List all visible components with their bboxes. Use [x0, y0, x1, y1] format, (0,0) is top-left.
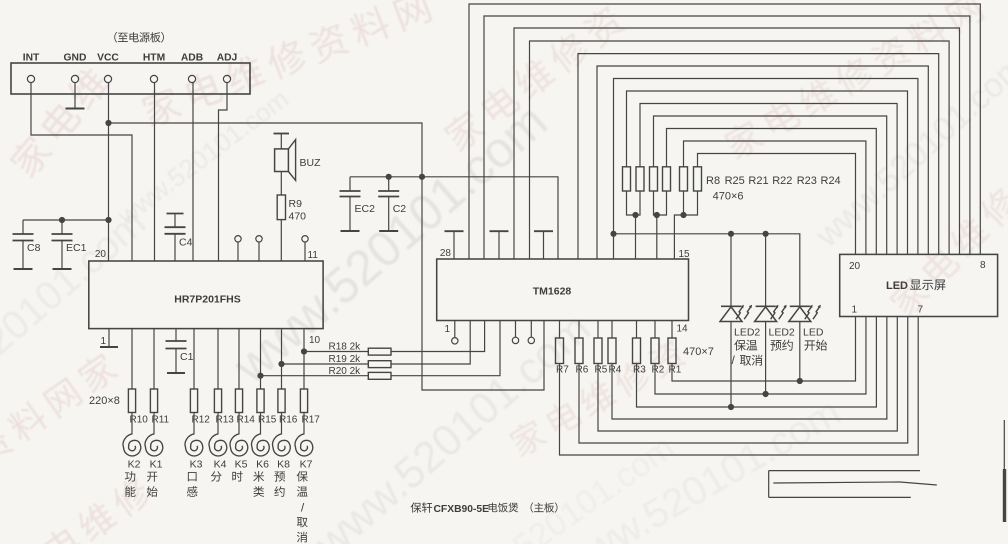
svg-text:C2: C2 [393, 203, 407, 215]
svg-text:ADB: ADB [181, 53, 203, 64]
svg-text:R21: R21 [748, 175, 768, 187]
wire pair B to U2 [656, 215, 658, 259]
svg-text:R20 2k: R20 2k [329, 366, 362, 377]
pin U2 top bar 1 [445, 230, 464, 232]
label (to power board) [114, 32, 117, 43]
wire R pair A [627, 191, 641, 215]
svg-text:VCC: VCC [97, 53, 119, 64]
wire ADJ [219, 83, 228, 261]
wire bus path 10 (R bank to LED pin) [654, 116, 887, 254]
resistor R11 [150, 389, 157, 413]
caption line [411, 502, 422, 512]
label K7 char [297, 471, 308, 482]
svg-text:7: 7 [918, 305, 924, 316]
svg-text:1: 1 [444, 324, 450, 335]
label K7 char [297, 517, 308, 527]
label K6 char [253, 486, 264, 497]
wire fragment b [773, 482, 937, 485]
node pair A [632, 212, 638, 218]
node VCC junction 2 [105, 217, 111, 223]
svg-text:K3: K3 [190, 459, 203, 471]
svg-text:CFXB90-5E: CFXB90-5E [434, 504, 490, 515]
svg-text:R6: R6 [576, 365, 589, 376]
wire LED1 drop [730, 234, 732, 306]
wire bus path 1 (U2 pin to LED pin) [469, 4, 980, 259]
svg-text:HTM: HTM [143, 53, 165, 64]
wire bus path 12 (R bank to LED pin) [684, 141, 866, 254]
led LED2 preset [756, 305, 776, 307]
resistor R2 [651, 338, 659, 364]
svg-text:C4: C4 [179, 237, 193, 249]
label K3 char [188, 472, 197, 481]
buzzer BUZ [275, 149, 289, 172]
wire U1 to R14 [238, 329, 240, 389]
resistor R9 [277, 195, 285, 220]
pin U2-5 circle [515, 321, 517, 338]
wire U1 to R12 [193, 329, 195, 389]
node VCC junction 1 [105, 120, 111, 126]
wire U1 to R16 [281, 329, 283, 389]
wire bus path 5 (U2 pin to LED pin) [578, 54, 939, 259]
wire U1 to R10 [131, 329, 133, 389]
label K8 char [274, 471, 285, 481]
svg-text:470×7: 470×7 [683, 346, 714, 358]
wire U2 to R2 [654, 321, 656, 339]
wire LED3 cathode [799, 322, 801, 382]
node LED2 anode [763, 231, 769, 237]
pin U2 top bar 3 [534, 230, 553, 232]
svg-text:20: 20 [849, 261, 861, 272]
wire R9 to U1 [280, 220, 282, 261]
wire R6 to LED pin 6 [579, 317, 908, 444]
label K5 char [232, 471, 242, 481]
key K8 [273, 434, 291, 456]
svg-text:GND: GND [64, 53, 87, 64]
power bar BUZ [274, 133, 290, 135]
led LED start [790, 305, 810, 307]
wire LED1 cathode [730, 322, 732, 408]
wire R13 to key [217, 413, 219, 435]
node U2 bus junction [610, 231, 616, 237]
wire U2 to R3 [636, 321, 638, 339]
svg-text:R4: R4 [609, 365, 622, 376]
svg-text:HR7P201FHS: HR7P201FHS [174, 294, 241, 306]
svg-text:LED: LED [803, 327, 824, 339]
svg-text:C8: C8 [27, 242, 41, 254]
node LED3 cathode [797, 378, 803, 384]
wire R16 to key [281, 413, 283, 435]
pin U2-1 circle [454, 321, 456, 338]
resistor bank 4 [663, 167, 671, 191]
wire R5 to LED pin 5 [598, 317, 897, 432]
node LED1 anode [728, 231, 734, 237]
wire R4 to LED pin 4 [612, 317, 887, 420]
wire ADB [192, 83, 194, 261]
svg-text:BUZ: BUZ [300, 157, 322, 169]
wire R11 to key [153, 413, 155, 435]
node R20 junction [257, 373, 263, 379]
wire LED2 drop [765, 234, 767, 306]
resistor R18 [368, 348, 391, 355]
wire VCC [108, 83, 110, 261]
svg-text:R9: R9 [289, 198, 303, 210]
svg-text:R7: R7 [556, 365, 569, 376]
node pair B [654, 212, 660, 218]
label K2 char [125, 471, 135, 481]
svg-text:TM1628: TM1628 [533, 286, 572, 298]
ground GND [66, 108, 85, 110]
capacitor C1 [175, 329, 177, 341]
pin VCC [104, 75, 111, 82]
svg-text:15: 15 [679, 249, 691, 260]
connector J1 (to power board) [11, 63, 250, 94]
resistor R6 [575, 338, 583, 364]
wire R15 to key [260, 413, 262, 435]
svg-text:28: 28 [440, 248, 452, 259]
svg-text:20: 20 [95, 249, 107, 260]
wire GND [74, 83, 76, 109]
wire R1 to LED pin 1 [672, 317, 856, 382]
wire U2 to R4 [611, 321, 613, 339]
label K1 char [147, 472, 157, 482]
resistor R10 [128, 389, 135, 413]
key K4 [209, 434, 227, 456]
capacitor C8 [22, 220, 24, 234]
svg-text:LED2: LED2 [734, 327, 760, 339]
node R19 junction [278, 361, 284, 367]
resistor R20 [368, 372, 391, 379]
wire bus path 11 (R bank to LED pin) [667, 129, 877, 255]
resistor bank 6 [694, 167, 702, 191]
svg-text:470×6: 470×6 [713, 191, 744, 203]
wire U2 to R7 [559, 321, 561, 339]
svg-text:K5: K5 [235, 459, 248, 471]
resistor R5 [594, 338, 602, 364]
pin circle U1 top a [235, 236, 241, 242]
wire fragment c [769, 496, 911, 498]
wire U2 to R1 [671, 321, 673, 339]
resistor R1 [668, 338, 676, 364]
pin HTM [150, 75, 157, 82]
wire fragment a [769, 470, 920, 472]
svg-text:K4: K4 [214, 459, 227, 471]
svg-text:K1: K1 [150, 459, 163, 471]
svg-text:10: 10 [309, 335, 321, 346]
wire HTM [154, 83, 156, 261]
svg-text:1: 1 [100, 336, 106, 347]
ic U1 HR7P201FHS [89, 261, 323, 329]
pin INT [27, 75, 34, 82]
wire bus path 8 (R bank to LED pin) [627, 91, 908, 254]
svg-text:LED: LED [886, 280, 908, 292]
wire R2 to LED pin 2 [655, 317, 866, 395]
label K1 char [147, 486, 158, 497]
wire fragment d [768, 471, 770, 498]
svg-text:1: 1 [852, 305, 858, 316]
resistor bank 1 [623, 167, 631, 191]
wire U1 to R17 [303, 329, 305, 389]
pin GND [71, 75, 78, 82]
wire R pair B [654, 191, 667, 215]
capacitor EC1 [61, 220, 63, 234]
resistor R16 [278, 389, 285, 413]
resistor R3 [633, 338, 641, 364]
svg-text:EC1: EC1 [66, 242, 87, 254]
pin ADJ [223, 75, 230, 82]
key K6 [252, 434, 270, 456]
key K1 [145, 434, 163, 456]
pin ADB [188, 75, 195, 82]
svg-text:8: 8 [980, 260, 986, 271]
wire R17 to key [303, 413, 305, 435]
svg-text:R2: R2 [652, 365, 665, 376]
wire bus path 9 (R bank to LED pin) [640, 104, 897, 255]
svg-text:R1: R1 [669, 365, 682, 376]
wire R19 to U2 [391, 321, 470, 365]
key K5 [230, 434, 248, 456]
capacitor C2 [388, 177, 390, 191]
svg-text:R23: R23 [797, 175, 817, 187]
svg-text:R5: R5 [595, 365, 608, 376]
svg-text:R24: R24 [821, 175, 841, 187]
label K4 char [211, 471, 222, 481]
resistor R19 [368, 361, 391, 368]
ground U1 pin1 [100, 346, 118, 348]
svg-text:INT: INT [23, 53, 40, 64]
resistor R7 [556, 338, 564, 364]
svg-text:K2: K2 [128, 459, 141, 471]
edge mark [1003, 420, 1005, 470]
svg-text:K8: K8 [277, 459, 290, 471]
node LED1 cathode [728, 404, 734, 410]
key K3 [185, 434, 203, 456]
node EC1 junction [59, 217, 65, 223]
resistor R14 [235, 389, 242, 413]
svg-text:ADJ: ADJ [217, 53, 238, 64]
wire U1 to R15 [260, 329, 262, 389]
wire R20 to U2 [391, 321, 500, 376]
wire INT [31, 83, 132, 261]
resistor bank 5 [680, 167, 688, 191]
label K6 char [253, 471, 264, 482]
capacitor C4 [167, 213, 184, 215]
wire VCC rail [109, 123, 545, 390]
pin circle U1 pin11 [302, 236, 308, 242]
wire bus path 13 (R bank to LED pin) [698, 154, 856, 255]
node VCC-EC2 bus junction [419, 174, 425, 180]
wire bus path 2 (U2 pin to LED pin) [484, 16, 970, 259]
led LED2 keep-warm/cancel [721, 305, 741, 307]
wire R pair C [674, 191, 697, 259]
resistor R13 [214, 389, 221, 413]
wire U1 to R11 [153, 329, 155, 389]
wire U2 to R6 [578, 321, 580, 339]
label K7 char [297, 486, 308, 496]
svg-text:R22: R22 [772, 175, 792, 187]
svg-text:R19 2k: R19 2k [329, 354, 362, 365]
svg-text:LED2: LED2 [769, 327, 795, 339]
label K3 char [187, 486, 198, 497]
svg-text:K7: K7 [300, 459, 313, 471]
resistor R4 [608, 338, 616, 364]
wire LED2 cathode [765, 322, 767, 395]
ic U2 TM1628 [437, 259, 689, 321]
wire bus path 4 (U2 pin to LED pin) [530, 41, 950, 259]
key K7 [295, 434, 313, 456]
wire U1 pin1 ground [108, 329, 110, 347]
svg-text:C1: C1 [180, 351, 194, 363]
key K2 [123, 434, 141, 456]
resistor R17 [300, 389, 307, 413]
node R18 junction [301, 348, 307, 354]
wire bus path 3 (U2 pin to LED pin) [514, 28, 960, 259]
wire LED anode bus [614, 234, 800, 306]
resistor R12 [190, 389, 197, 413]
resistor bank 2 [636, 167, 644, 191]
pin U2 top bar 2 [490, 230, 509, 232]
svg-text:470: 470 [289, 211, 307, 223]
svg-text:R8: R8 [706, 175, 720, 187]
svg-text:11: 11 [308, 250, 319, 261]
wire U1 to R13 [217, 329, 219, 389]
svg-text:R18 2k: R18 2k [329, 342, 362, 353]
wire R18 [304, 351, 368, 353]
wire U2 to R5 [597, 321, 599, 339]
resistor R15 [257, 389, 264, 413]
wire R7 to LED pin 7 [560, 317, 919, 456]
label K8 char [274, 486, 284, 497]
svg-text:R25: R25 [725, 175, 745, 187]
wire pair A to U2 [635, 215, 637, 259]
svg-text:R3: R3 [633, 365, 646, 376]
wire R19 [282, 363, 369, 365]
wire R14 to key [238, 413, 240, 435]
wire R10 to key [131, 413, 133, 435]
pin U2-6 circle [530, 321, 532, 338]
svg-text:14: 14 [677, 324, 689, 335]
wire R20 [261, 375, 369, 377]
display LED module [840, 254, 998, 316]
wire bus path 6 (U2 pin to LED pin) [597, 66, 928, 259]
wire BUZ-R9 [280, 172, 282, 196]
pin circle U1 top b [256, 236, 262, 242]
node C2 junction [386, 174, 392, 180]
label K7 char [297, 532, 307, 543]
node pair C [680, 212, 686, 218]
wire VCC bus to U2 pin8 [350, 177, 558, 259]
wire bus path 7 (U2 pin to LED pin) [614, 79, 918, 260]
svg-text:EC2: EC2 [355, 203, 376, 215]
svg-text:220×8: 220×8 [89, 395, 120, 407]
svg-text:K6: K6 [256, 459, 269, 471]
resistor bank 3 [650, 167, 658, 191]
label K2 char [125, 486, 135, 497]
node LED2 cathode [763, 391, 769, 397]
wire R3 to LED pin 3 [637, 317, 877, 408]
capacitor EC2 [349, 177, 351, 191]
wire R18 to U2 [391, 321, 485, 352]
wire C8-EC1 bus [23, 219, 109, 221]
wire R12 to key [193, 413, 195, 435]
